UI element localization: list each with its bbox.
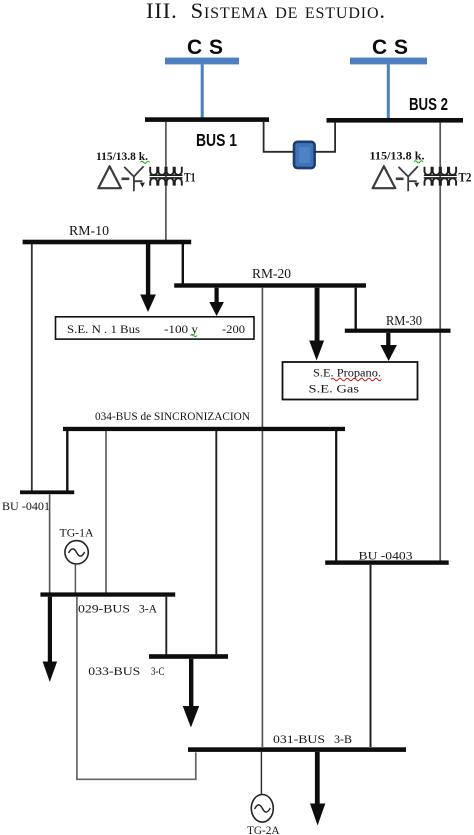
svg-text:C S: C S bbox=[187, 36, 223, 59]
bus 033 bbox=[149, 654, 228, 659]
wire RM-20 long line down to 031 bbox=[261, 288, 263, 747]
bus CS2 cap (blue) bbox=[350, 58, 427, 65]
bus BU-0401 bbox=[20, 490, 74, 494]
wire CS2 stem (blue) bbox=[387, 64, 390, 118]
svg-text:S.E. N . 1 Bus: S.E. N . 1 Bus bbox=[67, 322, 140, 336]
wire TG-1A to 029 bbox=[74, 564, 76, 593]
generator CS1 label bbox=[187, 36, 223, 59]
wire 034 to 029 bbox=[105, 431, 107, 593]
wire 029 to 033 bbox=[165, 597, 167, 655]
label BU -0401 bbox=[2, 499, 50, 513]
transformer T2 windings bbox=[424, 167, 457, 186]
bus 031 bbox=[188, 747, 406, 752]
label TG-1A bbox=[60, 526, 94, 540]
bus BU-0403 bbox=[325, 560, 449, 564]
load arrow from RM-10 bbox=[140, 244, 156, 312]
svg-text:3-A: 3-A bbox=[139, 602, 157, 616]
label T1 bbox=[184, 171, 196, 185]
svg-text:115/13.8 k.: 115/13.8 k. bbox=[370, 149, 425, 163]
wire 034 to BU-0401 bbox=[66, 431, 68, 491]
wire BU-0401 to 029 bbox=[49, 494, 51, 592]
label 033-BUS 3-C bbox=[88, 664, 164, 678]
transformer T1 bbox=[98, 166, 145, 191]
svg-text:T2: T2 bbox=[459, 171, 472, 185]
svg-text:BUS 2: BUS 2 bbox=[409, 94, 448, 114]
svg-text:T1: T1 bbox=[184, 171, 196, 185]
load arrow RM-30 to S.E. box bbox=[380, 333, 397, 361]
svg-text:C S: C S bbox=[372, 36, 408, 59]
svg-text:S.E. Gas: S.E. Gas bbox=[309, 382, 360, 396]
wire RM-10 left drop to BU-0401 bbox=[31, 244, 33, 491]
load arrow 031 bbox=[310, 752, 325, 826]
generator CS2 label bbox=[372, 36, 408, 59]
label BUS 1 bbox=[196, 130, 237, 150]
wire 029 L-path to 031 bbox=[77, 597, 196, 780]
wire 034 to BU-0403 bbox=[335, 431, 337, 561]
svg-text:-200: -200 bbox=[222, 322, 245, 336]
label T2 bbox=[459, 171, 472, 185]
svg-text:3-B: 3-B bbox=[334, 732, 352, 746]
load arrow 029 bbox=[43, 597, 58, 682]
label 034-BUS de SINCRONIZACION bbox=[95, 409, 250, 423]
bus RM-20 bbox=[174, 283, 366, 287]
wire tie to BUS2 bbox=[315, 122, 336, 152]
label 115/13.8 kV (T2) bbox=[370, 149, 425, 163]
wire BUS1 to tie bbox=[264, 122, 294, 152]
bus 034 bbox=[63, 427, 345, 431]
generator TG-1A bbox=[65, 541, 88, 564]
svg-text:S.E. Propano.: S.E. Propano. bbox=[313, 366, 381, 380]
label 115/13.8 kV (T1) bbox=[96, 149, 150, 163]
box S.E.N. loads bbox=[56, 317, 255, 339]
svg-text:BU -0401: BU -0401 bbox=[2, 499, 50, 513]
label 031-BUS 3-B bbox=[273, 732, 352, 746]
wire 031 to TG-2A bbox=[260, 752, 262, 795]
transformer T1 windings bbox=[150, 167, 183, 186]
svg-text:033-BUS: 033-BUS bbox=[88, 664, 140, 678]
label RM-30 bbox=[386, 314, 422, 329]
label TG-2A bbox=[247, 823, 280, 835]
load arrow RM-20 to SEN box bbox=[209, 288, 224, 316]
bus 029 bbox=[40, 592, 175, 596]
tie breaker square bbox=[294, 142, 315, 168]
svg-text:RM-30: RM-30 bbox=[386, 314, 422, 329]
svg-text:031-BUS: 031-BUS bbox=[273, 732, 325, 746]
label 029-BUS 3-A bbox=[78, 602, 157, 616]
bus BUS 2 bbox=[327, 118, 464, 123]
wire CS1 stem (blue) bbox=[201, 64, 204, 117]
svg-text:TG-2A: TG-2A bbox=[247, 823, 280, 835]
box S.E. Propano / S.E. Gas bbox=[283, 362, 418, 400]
wire BUS1 through T1 to RM-10 bbox=[165, 122, 167, 241]
title bbox=[146, 0, 385, 23]
svg-text:115/13.8 k.: 115/13.8 k. bbox=[96, 149, 148, 163]
svg-text:RM-20: RM-20 bbox=[252, 267, 291, 282]
label RM-20 bbox=[252, 267, 291, 282]
svg-text:III. Sistema de estudio.: III. Sistema de estudio. bbox=[146, 0, 385, 23]
label BUS 2 bbox=[409, 94, 448, 114]
wire RM-20 to RM-30 bbox=[355, 288, 357, 329]
label RM-10 bbox=[69, 224, 109, 239]
bus RM-10 bbox=[23, 240, 192, 245]
svg-text:RM-10: RM-10 bbox=[69, 224, 109, 239]
svg-text:029-BUS: 029-BUS bbox=[78, 602, 130, 616]
wire RM-10 to RM-20 bbox=[182, 244, 184, 284]
label BU -0403 bbox=[359, 549, 413, 563]
wire BUS2 through T2 down to BU-0403 bbox=[439, 123, 441, 561]
transformer T2 bbox=[373, 166, 420, 191]
bus BUS 1 bbox=[145, 117, 269, 122]
svg-text:3-C: 3-C bbox=[151, 664, 165, 678]
svg-text:-100 y: -100 y bbox=[164, 322, 198, 336]
wire 034 to 033 bbox=[215, 431, 217, 654]
bus CS1 cap (blue) bbox=[165, 58, 239, 65]
load arrow 033 bbox=[183, 659, 200, 728]
load arrow RM-20 to S.E. box bbox=[309, 288, 324, 361]
svg-text:034-BUS de SINCRONIZACION: 034-BUS de SINCRONIZACION bbox=[95, 409, 250, 423]
svg-text:BUS 1: BUS 1 bbox=[196, 130, 237, 150]
wire BU-0403 to 031 bbox=[370, 565, 372, 747]
generator TG-2A bbox=[251, 795, 273, 823]
svg-text:TG-1A: TG-1A bbox=[60, 526, 94, 540]
bus RM-30 bbox=[345, 329, 451, 333]
